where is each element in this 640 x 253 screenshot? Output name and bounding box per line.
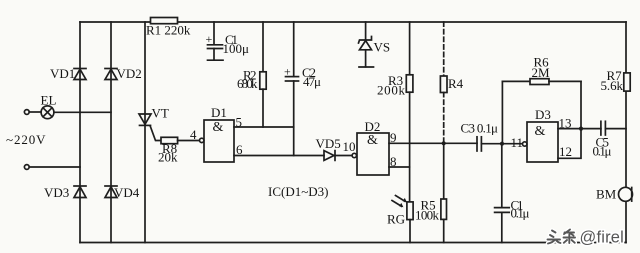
svg-text:BM: BM [596, 187, 617, 202]
svg-text:100k: 100k [415, 208, 440, 223]
svg-text:200k: 200k [377, 83, 406, 98]
wire: lower AC lead to VD1/VD3 arm [29, 166, 80, 168]
wire: R8 to D1 pin4 [178, 140, 200, 142]
wire: right rail [625, 22, 627, 243]
resistor R3 [409, 22, 411, 75]
photoresistor RG [392, 196, 413, 243]
svg-text:&: & [535, 124, 546, 139]
terminal: AC input lower [24, 165, 29, 170]
svg-text:0.1μ: 0.1μ [511, 206, 530, 221]
svg-text:4: 4 [190, 127, 197, 142]
lamp EL [41, 106, 54, 119]
svg-text:12: 12 [559, 144, 572, 159]
svg-text:EL: EL [41, 93, 57, 108]
capacitor C3 [477, 137, 524, 151]
svg-text:VD4: VD4 [114, 185, 140, 200]
buzzer BM [619, 187, 633, 201]
svg-text:10: 10 [343, 139, 356, 154]
svg-text:VS: VS [374, 40, 391, 55]
wire: D2 pin8 to R3/RG node [389, 166, 410, 168]
pin 11 bubble of D3 [523, 142, 527, 146]
thyristor VT [139, 114, 161, 141]
diode VD4 [105, 186, 117, 198]
diode VD3 [74, 186, 86, 198]
terminal: AC input upper [24, 110, 29, 115]
wire: thyristor branch vertical [144, 22, 146, 243]
wire: D2 pin9 to C3 [389, 142, 477, 144]
svg-text:47μ: 47μ [303, 74, 321, 89]
svg-text:5.6k: 5.6k [601, 78, 624, 93]
svg-text:R4: R4 [448, 76, 464, 91]
svg-text:+: + [284, 65, 291, 79]
diode VD1 [74, 69, 86, 80]
resistor R7 [624, 73, 630, 91]
resistor R4 (dashed branch) [443, 22, 445, 76]
svg-text:R1 220k: R1 220k [146, 23, 191, 38]
watermark 头条@firel [548, 229, 625, 247]
resistor R8 [161, 137, 178, 143]
svg-text:VD2: VD2 [117, 66, 142, 81]
capacitor C2 47u [284, 22, 299, 156]
svg-text:VD5: VD5 [316, 136, 341, 151]
wire: R3 bottom to pin8 node and RG [409, 92, 411, 202]
junction: pin11 node with R6/C1 [500, 142, 504, 146]
svg-text:VD3: VD3 [44, 185, 69, 200]
svg-text:RG: RG [387, 212, 405, 227]
wire: top positive rail [80, 21, 151, 23]
svg-text:&: & [213, 120, 224, 135]
svg-text:VT: VT [152, 106, 169, 121]
capacitor C1 100u [206, 22, 224, 60]
capacitor C1 0.1u (lower) [495, 144, 510, 243]
svg-text:&: & [367, 133, 378, 148]
gate D1 [204, 120, 234, 162]
svg-text:680k: 680k [237, 76, 258, 91]
svg-text:D2: D2 [365, 119, 381, 134]
svg-text:VD1: VD1 [50, 66, 75, 81]
junction: pin13 node [579, 127, 583, 131]
diode VD5 [324, 151, 352, 161]
svg-text:0.1μ: 0.1μ [593, 144, 612, 159]
svg-text:2M: 2M [532, 65, 551, 80]
wire: D1 pin5 to R2/C2 [234, 126, 294, 128]
capacitor C5 [601, 121, 626, 135]
pin 10 bubble of D2 [352, 153, 356, 157]
svg-text:100μ: 100μ [223, 41, 250, 56]
diode VD2 [105, 69, 117, 80]
gate D2 [357, 133, 389, 175]
resistor R6 feedback loop [502, 79, 581, 144]
wire: second bridge arm (VD2/VD4) [110, 22, 112, 243]
resistor R2 [262, 22, 264, 72]
resistor R5 [443, 143, 445, 199]
svg-text:20k: 20k [158, 150, 178, 165]
svg-text:~220V: ~220V [6, 132, 46, 147]
junction: pin9 node with R4/R5 [442, 141, 446, 145]
svg-text:@firel: @firel [580, 229, 625, 247]
svg-text:11: 11 [511, 135, 524, 150]
pin 4 bubble of D1 [200, 138, 204, 142]
wire: D3 pin12 loop to pin13 node [558, 129, 581, 159]
svg-text:C3 0.1μ: C3 0.1μ [461, 121, 499, 136]
wire: D3 pin13 to C5 [558, 128, 601, 130]
svg-text:D1: D1 [211, 105, 227, 120]
resistor R1 [151, 18, 178, 24]
svg-text:D3: D3 [535, 107, 551, 122]
wire: bottom negative rail [80, 242, 626, 244]
gate D3 [527, 122, 558, 162]
wire: left bridge arm (VD1/VD3) [79, 22, 81, 243]
svg-text:+: + [206, 32, 213, 46]
svg-text:IC(D1~D3): IC(D1~D3) [268, 184, 328, 199]
wire: upper AC lead through lamp to VD2 arm [29, 111, 41, 113]
zener diode VS [359, 22, 374, 67]
wire: D1 pin6 output line [234, 155, 324, 157]
